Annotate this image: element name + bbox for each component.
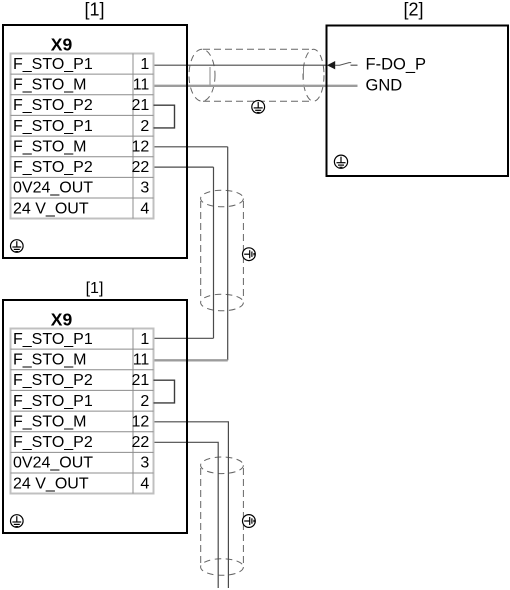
svg-text:F_STO_M: F_STO_M xyxy=(13,352,87,369)
svg-text:[1]: [1] xyxy=(84,0,104,20)
shielded cable screen 3 (vertical, below lower X9) xyxy=(201,457,244,575)
svg-text:0V24_OUT: 0V24_OUT xyxy=(13,180,93,197)
connector X9 terminal table (upper) xyxy=(11,54,154,219)
wire F_STO_P2 pin22 (lower X9) going down to next node xyxy=(154,442,219,588)
wire F_STO_M pin12 (lower X9) going down to next node xyxy=(154,422,229,588)
svg-text:GND: GND xyxy=(366,77,403,95)
pin 0V24_OUT / 3 (upper) xyxy=(13,180,149,197)
wire into F_STO_M pin11 (lower X9) xyxy=(154,359,228,361)
pin 24 V_OUT / 4 (upper) xyxy=(13,200,149,217)
svg-text:F_STO_M: F_STO_M xyxy=(13,138,87,155)
wire F_STO_P2 pin22 (upper X9) horizontal xyxy=(154,166,214,168)
svg-text:X9: X9 xyxy=(51,310,73,330)
svg-text:3: 3 xyxy=(140,455,149,472)
leader line from arrow to F-DO_P label xyxy=(335,63,351,66)
pin F_STO_M / 12 (upper) xyxy=(13,138,149,155)
svg-text:12: 12 xyxy=(132,138,150,155)
svg-text:F_STO_M: F_STO_M xyxy=(13,413,87,430)
svg-text:3: 3 xyxy=(140,180,149,197)
shield earthing symbol (cable 3, rotated) xyxy=(243,515,256,528)
svg-text:F_STO_P2: F_STO_P2 xyxy=(13,97,93,114)
svg-text:11: 11 xyxy=(133,77,150,94)
svg-text:F_STO_P2: F_STO_P2 xyxy=(13,434,93,451)
pin 24 V_OUT / 4 (lower) xyxy=(13,475,149,492)
device [1] upper: enclosure box xyxy=(3,25,187,258)
svg-text:F_STO_P1: F_STO_P1 xyxy=(13,56,93,73)
svg-text:2: 2 xyxy=(140,393,149,410)
pin F_STO_P2 / 21 (upper) xyxy=(13,97,149,114)
protective earth symbol (device [2]) xyxy=(334,155,347,168)
svg-text:22: 22 xyxy=(132,434,150,451)
svg-text:22: 22 xyxy=(132,159,150,176)
pin F_STO_M / 11 (lower) xyxy=(13,352,149,369)
protective earth symbol (upper device [1]) xyxy=(10,240,23,253)
svg-text:F_STO_P1: F_STO_P1 xyxy=(13,393,93,410)
pin F_STO_P2 / 22 (lower) xyxy=(13,434,149,451)
connector X9 terminal table (lower) xyxy=(11,329,154,494)
pin F_STO_P1 / 2 (upper) xyxy=(13,118,149,135)
jumper wire pins 21-2 (lower X9) xyxy=(154,380,175,403)
svg-text:F-DO_P: F-DO_P xyxy=(366,56,427,74)
pin F_STO_M / 12 (lower) xyxy=(13,413,149,430)
protective earth symbol (lower device [1]) xyxy=(10,515,23,528)
svg-text:11: 11 xyxy=(133,352,150,369)
pin F_STO_P2 / 22 (upper) xyxy=(13,159,149,176)
pin 0V24_OUT / 3 (lower) xyxy=(13,455,149,472)
svg-text:4: 4 xyxy=(140,200,149,217)
wire into F_STO_P1 pin1 (lower X9) xyxy=(154,337,214,339)
wire F_STO_M pin12 (upper X9) horizontal xyxy=(154,146,228,148)
svg-text:F_STO_P1: F_STO_P1 xyxy=(13,118,93,135)
device [1] lower: enclosure box xyxy=(3,300,187,533)
wire vertical run pin12 upper to pin11 lower xyxy=(227,147,229,360)
arrowhead at F-DO_P input of device [2] xyxy=(327,61,335,69)
svg-text:21: 21 xyxy=(132,372,150,389)
svg-text:1: 1 xyxy=(140,331,149,348)
svg-text:2: 2 xyxy=(140,118,149,135)
svg-text:4: 4 xyxy=(140,475,149,492)
svg-text:[2]: [2] xyxy=(403,0,423,20)
wire F_STO_P1 pin1 (upper X9) to F-DO_P of device [2] xyxy=(154,64,328,66)
wire vertical run pin22 upper to pin1 lower xyxy=(213,167,215,338)
svg-text:21: 21 xyxy=(132,97,150,114)
svg-text:0V24_OUT: 0V24_OUT xyxy=(13,455,93,472)
svg-text:X9: X9 xyxy=(51,35,73,55)
pin F_STO_P2 / 21 (lower) xyxy=(13,372,149,389)
wire F_STO_M pin11 (upper X9) to GND of device [2] xyxy=(154,85,358,87)
shield earthing symbol (cable 2, rotated) xyxy=(243,248,256,261)
svg-text:F_STO_P2: F_STO_P2 xyxy=(13,372,93,389)
svg-text:12: 12 xyxy=(132,413,150,430)
svg-text:1: 1 xyxy=(140,56,149,73)
shielded cable screen 1 (horizontal, between X9 pins 1/11 and device [2]) xyxy=(189,49,324,101)
pin F_STO_P1 / 1 (upper) xyxy=(13,56,149,73)
svg-text:F_STO_M: F_STO_M xyxy=(13,77,87,94)
jumper wire pins 21-2 (upper X9) xyxy=(154,105,175,128)
shielded cable screen 2 (vertical, between upper and lower X9) xyxy=(201,190,244,311)
pin F_STO_P1 / 2 (lower) xyxy=(13,393,149,410)
device [2]: enclosure box xyxy=(327,26,509,177)
svg-text:F_STO_P1: F_STO_P1 xyxy=(13,331,93,348)
pin F_STO_M / 11 (upper) xyxy=(13,77,149,94)
shield earthing symbol (cable 1) xyxy=(252,101,265,114)
svg-text:24 V_OUT: 24 V_OUT xyxy=(13,200,89,217)
pin F_STO_P1 / 1 (lower) xyxy=(13,331,149,348)
svg-text:24 V_OUT: 24 V_OUT xyxy=(13,475,89,492)
svg-text:F_STO_P2: F_STO_P2 xyxy=(13,159,93,176)
svg-text:[1]: [1] xyxy=(86,280,104,297)
